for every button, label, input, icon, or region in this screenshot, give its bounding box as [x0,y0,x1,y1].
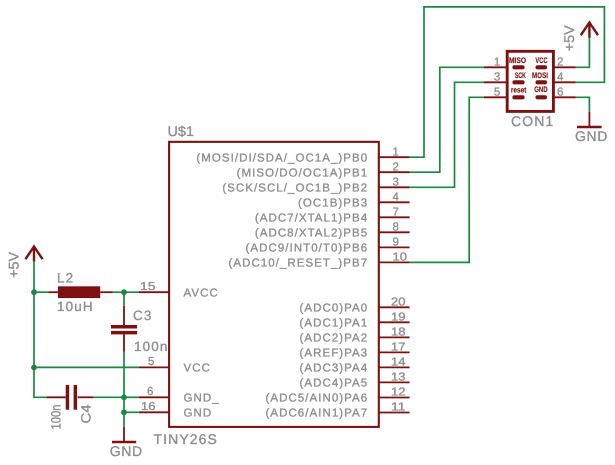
pin PB4 stub (pin 7) [379,216,410,218]
svg-text:U$1: U$1 [168,123,195,139]
svg-text:(ADC3)PA4: (ADC3)PA4 [300,363,369,375]
svg-text:100n: 100n [49,405,64,430]
svg-text:L2: L2 [57,270,74,285]
svg-text:GND: GND [534,85,548,94]
wire +5V to VCC pin5 [34,366,139,368]
svg-text:VCC: VCC [184,363,211,375]
svg-text:16: 16 [141,401,156,413]
svg-text:+5V: +5V [5,251,21,278]
svg-text:(ADC10/_RESET_)PB7: (ADC10/_RESET_)PB7 [228,258,368,270]
svg-text:12: 12 [391,387,406,399]
svg-text:GND: GND [110,443,143,459]
inductor L2 [48,286,113,298]
pin PA2 stub (pin 18) [379,336,410,338]
pin PB0 stub (pin 1) [379,156,410,158]
ground symbol at CON1 [577,112,602,127]
svg-text:(SCK/SCL/_OC1B_)PB2: (SCK/SCL/_OC1B_)PB2 [222,183,368,195]
svg-text:AVCC: AVCC [184,287,219,299]
pin CON1-3 stub [484,81,507,83]
wire L2 right to AVCC pin15 [113,291,139,293]
svg-text:(ADC2)PA2: (ADC2)PA2 [300,333,369,345]
svg-text:100n: 100n [134,339,168,354]
svg-text:(OC1B)PB3: (OC1B)PB3 [298,198,368,210]
svg-text:20: 20 [391,297,406,309]
svg-text:(MISO/DO/OC1A)PB1: (MISO/DO/OC1A)PB1 [237,167,369,179]
svg-text:VCC: VCC [535,56,547,65]
svg-text:3: 3 [494,71,500,83]
svg-text:CON1: CON1 [511,113,554,129]
pin PB5 stub (pin 8) [379,231,410,233]
svg-text:10: 10 [393,252,408,264]
pad CON1 GND [536,95,548,99]
wire +5V to L2 left [34,291,48,293]
pin CON1-2 stub [553,66,575,68]
pad CON1 reset [512,95,524,99]
junction node GND / pin6 / C4 [121,394,127,400]
svg-text:(ADC9/INT0/T0)PB6: (ADC9/INT0/T0)PB6 [246,243,369,255]
svg-text:4: 4 [393,192,400,204]
svg-text:reset: reset [511,86,527,95]
connector CON1 box [507,51,553,111]
wire GND node down to GND symbol [123,397,125,427]
svg-text:7: 7 [393,207,399,219]
wire net MOSI: PB0 pin1 to CON1 pin4 [410,7,605,157]
pin GND_ stub (pin 6) [139,396,169,398]
pin PA0 stub (pin 20) [379,306,410,308]
IC U$1 TINY26S box [169,142,379,427]
svg-text:SCK: SCK [515,71,526,80]
junction node +5V / VCC [31,365,37,371]
svg-text:4: 4 [557,71,564,83]
pin PA1 stub (pin 19) [379,321,410,323]
pad CON1 SCK [512,80,524,84]
pad CON1 MOSI [536,80,548,84]
svg-text:1: 1 [494,56,500,68]
pin PB7 stub (pin 10) [379,261,410,263]
svg-text:2: 2 [557,56,563,68]
junction node GND / pin16 [121,409,127,415]
wire C3 bottom to GND node [123,352,125,397]
pin PB3 stub (pin 4) [379,201,410,203]
svg-text:19: 19 [391,312,406,324]
svg-text:(ADC0)PA0: (ADC0)PA0 [300,303,369,315]
pin CON1-5 stub [484,96,507,98]
capacitor C4 [47,385,94,410]
svg-text:8: 8 [393,222,399,234]
wire +5V supply to CON1 pin2 [576,38,590,68]
svg-text:6: 6 [557,86,563,98]
svg-text:MOSI: MOSI [532,71,548,80]
pin PA6 stub (pin 12) [379,397,410,399]
pin PA7 stub (pin 11) [379,412,410,414]
pin PA4 stub (pin 14) [379,366,410,368]
wire GND node to pin6 [124,396,139,398]
pin CON1-1 stub [484,66,507,68]
svg-text:10uH: 10uH [57,299,94,314]
pin PB1 stub (pin 2) [379,171,410,173]
svg-text:+5V: +5V [561,25,577,52]
pin PB2 stub (pin 3) [379,186,410,188]
junction node AVCC / C3 [121,289,127,295]
supply symbol +5V right [581,23,598,38]
svg-text:(AREF)PA3: (AREF)PA3 [300,348,369,360]
wire net RESET: PB7 pin10 to CON1 pin5 [410,97,484,262]
pin CON1-4 stub [553,81,575,83]
wire C4 right to GND node [93,396,124,398]
svg-text:(ADC6/AIN1)PA7: (ADC6/AIN1)PA7 [266,408,369,420]
svg-text:18: 18 [391,327,406,339]
svg-text:5: 5 [494,86,500,98]
wire +5V left vertical down to C4 [34,262,47,398]
pad CON1 MISO [512,65,524,69]
svg-text:5: 5 [148,356,154,368]
svg-text:15: 15 [140,281,155,293]
svg-text:(ADC7/XTAL1)PB4: (ADC7/XTAL1)PB4 [255,213,368,225]
svg-text:(ADC5/AIN0)PA6: (ADC5/AIN0)PA6 [266,393,369,405]
pin PB6 stub (pin 9) [379,246,410,248]
wire GND node to pin16 [124,411,139,413]
svg-text:11: 11 [391,402,406,414]
svg-text:C3: C3 [133,308,152,323]
pad CON1 VCC [536,65,548,69]
capacitor C3 [111,306,137,352]
pin PA3 stub (pin 17) [379,351,410,353]
pin VCC stub (pin 5) [139,366,169,368]
svg-text:MISO: MISO [509,56,526,65]
svg-text:2: 2 [393,161,399,173]
wire CON1 pin6 to GND [576,97,590,112]
svg-text:1: 1 [393,146,399,158]
wire net SCK: PB2 pin3 to CON1 pin3 [410,82,484,187]
svg-text:C4: C4 [79,404,94,424]
svg-text:3: 3 [393,177,399,189]
svg-text:13: 13 [391,372,406,384]
svg-text:9: 9 [393,237,399,249]
svg-text:14: 14 [391,357,406,369]
wire net MISO: PB1 pin2 to CON1 pin1 [410,67,484,172]
svg-text:(MOSI/DI/SDA/_OC1A_)PB0: (MOSI/DI/SDA/_OC1A_)PB0 [196,152,368,164]
svg-text:(ADC4)PA5: (ADC4)PA5 [300,378,369,390]
svg-text:GND: GND [184,408,213,420]
svg-text:17: 17 [391,342,406,354]
wire AVCC node to C3 top [123,292,125,306]
svg-text:6: 6 [147,386,153,398]
pin CON1-6 stub [553,96,575,98]
svg-text:(ADC1)PA1: (ADC1)PA1 [300,318,369,330]
svg-text:(ADC8/XTAL2)PB5: (ADC8/XTAL2)PB5 [255,228,368,240]
svg-text:GND: GND [575,128,608,144]
junction node +5V / L2 [31,289,37,295]
pin AVCC stub (pin 15) [139,291,169,293]
svg-text:TINY26S: TINY26S [154,431,219,447]
svg-text:GND_: GND_ [184,393,220,405]
pin PA5 stub (pin 13) [379,381,410,383]
ground symbol left [112,427,136,442]
pin GND stub (pin 16) [139,411,169,413]
supply symbol +5V left [25,247,42,262]
